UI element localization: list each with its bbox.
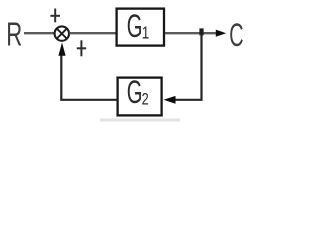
arrowhead into G2 <box>164 96 176 104</box>
svg-text:1: 1 <box>142 24 150 43</box>
svg-text:C: C <box>229 17 243 53</box>
node branch point <box>199 28 203 35</box>
wire G1 to output C <box>165 32 217 34</box>
wire G2 to left then up to summing junction <box>61 55 117 100</box>
plus sign lower (feedback sign) <box>77 40 86 56</box>
scan smudge under G2 <box>100 119 180 122</box>
plus sign upper (R input sign) <box>50 9 60 23</box>
arrowhead to C <box>216 30 226 37</box>
label G2 <box>127 74 149 110</box>
svg-text:G: G <box>127 74 143 110</box>
arrowhead up into summing junction <box>58 42 65 55</box>
wire branch down (right side of feedback loop) <box>171 33 202 100</box>
svg-text:G: G <box>127 8 143 44</box>
svg-text:R: R <box>6 16 22 52</box>
wire input R to summing junction <box>24 32 55 34</box>
block G1 <box>117 9 164 46</box>
label G1 <box>127 8 150 44</box>
summing junction circle <box>55 26 69 40</box>
block G2 <box>118 78 162 116</box>
summing junction X cross <box>57 29 67 39</box>
wire summing junction to block G1 <box>69 32 115 34</box>
svg-text:2: 2 <box>142 90 149 109</box>
